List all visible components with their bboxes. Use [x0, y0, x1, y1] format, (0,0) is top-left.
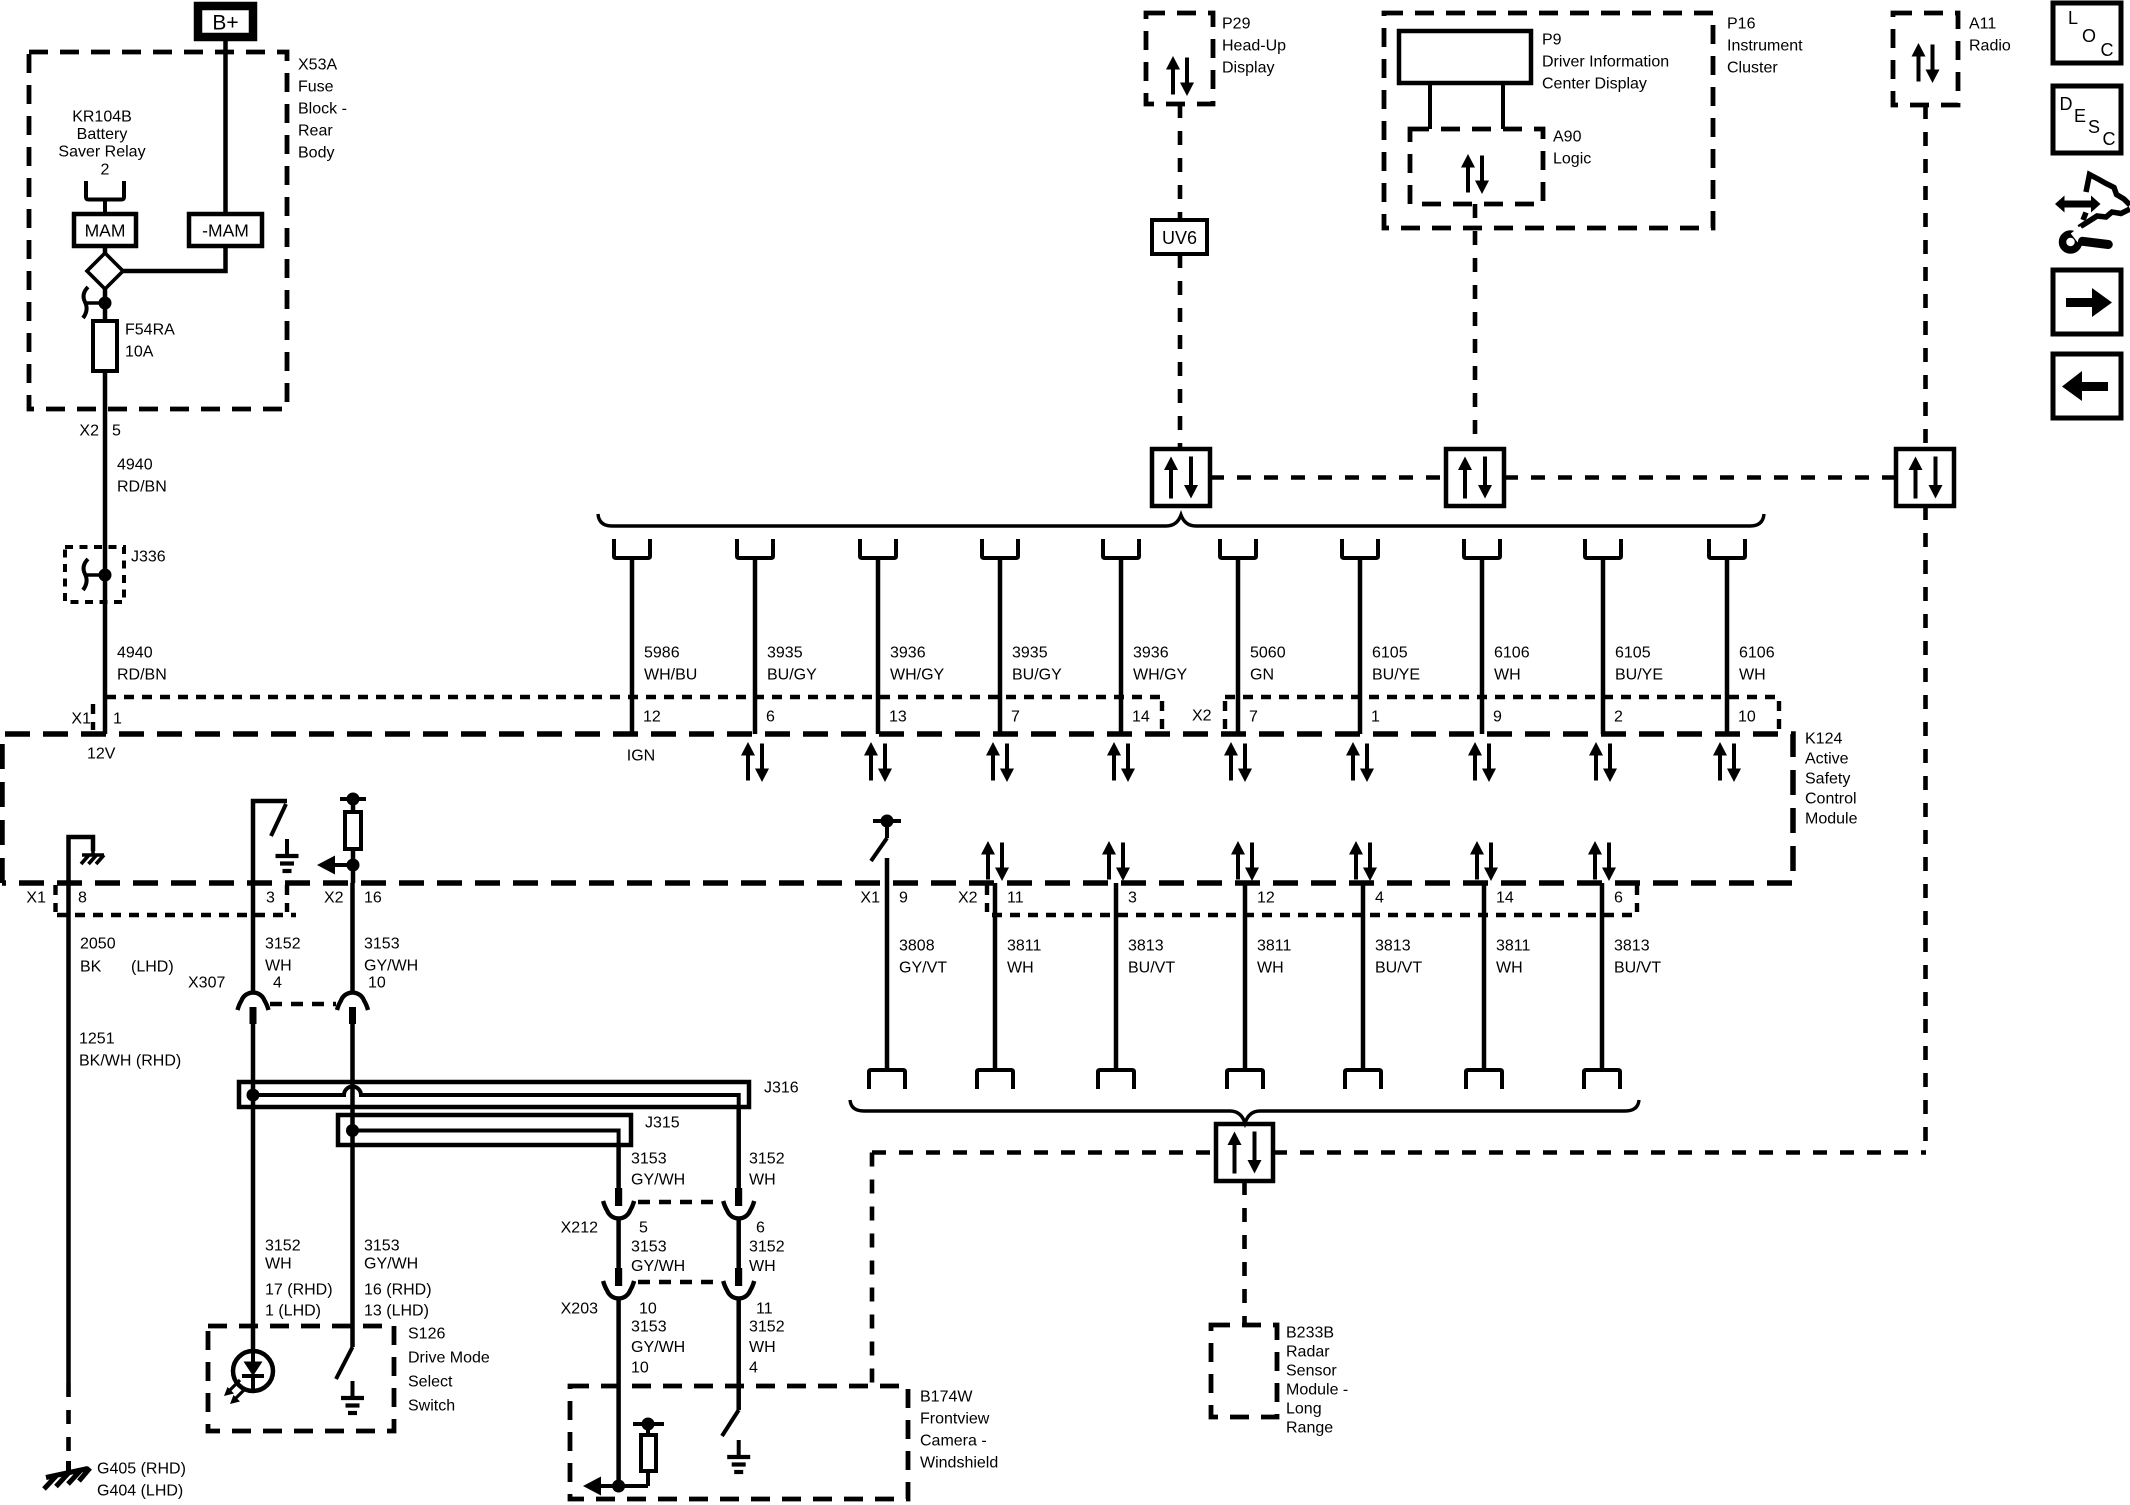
fuse F54RA 10A	[93, 321, 117, 371]
svg-text:3153: 3153	[364, 936, 400, 953]
serial data interface box (radio)	[1896, 449, 1954, 506]
svg-text:14: 14	[1496, 890, 1514, 907]
diamond junction	[87, 253, 123, 289]
svg-text:6106: 6106	[1739, 645, 1775, 662]
svg-text:3153: 3153	[364, 1238, 400, 1255]
svg-text:3152: 3152	[265, 1238, 301, 1255]
svg-text:E: E	[2074, 106, 2086, 126]
svg-text:C: C	[2103, 129, 2116, 149]
serial data arrows	[986, 742, 1014, 782]
svg-text:KR104B: KR104B	[72, 109, 132, 126]
wire A11 to K124 interface	[1923, 105, 1928, 449]
svg-text:WH/GY: WH/GY	[1133, 667, 1188, 684]
svg-text:IGN: IGN	[627, 748, 655, 765]
logic module A90 dashed box	[1410, 129, 1543, 204]
serial data wire radio branch down	[1923, 506, 1928, 1153]
svg-text:6: 6	[1614, 890, 1623, 907]
head-up display P29 dashed box	[1146, 13, 1213, 104]
legend icon arrow right	[2053, 270, 2121, 334]
svg-text:Range: Range	[1286, 1420, 1333, 1437]
svg-text:GY/WH: GY/WH	[631, 1339, 685, 1356]
wire 3808 GY/VT	[885, 858, 890, 1070]
svg-text:3813: 3813	[1614, 938, 1650, 955]
svg-text:X53A: X53A	[298, 57, 337, 74]
option code UV6 box	[1152, 220, 1207, 254]
brace to serial data interfaces	[598, 514, 1764, 526]
svg-text:12: 12	[643, 709, 661, 726]
relay contact MAM	[74, 214, 136, 246]
svg-text:WH: WH	[749, 1339, 776, 1356]
chassis ground symbol (internal)	[81, 851, 104, 864]
svg-text:6: 6	[756, 1220, 765, 1237]
serial data arrows	[1468, 742, 1496, 782]
svg-text:Driver Information: Driver Information	[1542, 54, 1669, 71]
svg-text:P16: P16	[1727, 16, 1756, 33]
svg-text:9: 9	[1493, 709, 1502, 726]
svg-text:A90: A90	[1553, 129, 1582, 146]
svg-text:3811: 3811	[1007, 938, 1042, 955]
svg-text:D: D	[2060, 94, 2073, 114]
svg-text:3153: 3153	[631, 1319, 667, 1336]
earth ground inside K124	[276, 839, 299, 871]
wire P9 to A90 right	[1501, 83, 1505, 129]
wire 3153 GY/WH (X203 to B174W pin 10)	[616, 1300, 621, 1486]
svg-text:Battery: Battery	[77, 126, 128, 143]
svg-text:Windshield: Windshield	[920, 1455, 998, 1472]
svg-text:Body: Body	[298, 145, 334, 162]
wire through fuse to module	[103, 371, 108, 734]
svg-text:3152: 3152	[265, 936, 301, 953]
svg-text:Drive Mode: Drive Mode	[408, 1350, 490, 1367]
LED indicator in S126	[233, 1351, 273, 1391]
svg-text:7: 7	[1249, 709, 1258, 726]
svg-text:11: 11	[1007, 890, 1024, 907]
svg-text:Instrument: Instrument	[1727, 38, 1803, 55]
svg-text:3935: 3935	[1012, 645, 1048, 662]
svg-text:RD/BN: RD/BN	[117, 667, 167, 684]
svg-text:16 (RHD): 16 (RHD)	[364, 1282, 432, 1299]
wire B+ to -MAM	[223, 41, 228, 214]
svg-text:16: 16	[364, 890, 382, 907]
svg-text:3: 3	[266, 890, 275, 907]
svg-text:G404 (LHD): G404 (LHD)	[97, 1483, 183, 1500]
svg-text:8: 8	[78, 890, 87, 907]
serial data arrows	[741, 742, 769, 782]
svg-text:1: 1	[1371, 709, 1380, 726]
svg-text:Radio: Radio	[1969, 38, 2011, 55]
internal resistor in B174W	[633, 1422, 664, 1426]
svg-text:13: 13	[889, 709, 907, 726]
svg-text:WH: WH	[265, 1256, 292, 1273]
svg-text:3936: 3936	[1133, 645, 1169, 662]
svg-text:X1: X1	[26, 890, 46, 907]
ground lead inside K124 at pin 8	[69, 837, 94, 883]
svg-text:2: 2	[1614, 709, 1623, 726]
svg-text:WH: WH	[1257, 960, 1284, 977]
svg-text:1: 1	[113, 711, 122, 728]
svg-text:Radar: Radar	[1286, 1344, 1330, 1361]
svg-text:5060: 5060	[1250, 645, 1286, 662]
junction block J316	[239, 1082, 749, 1107]
svg-text:C: C	[2101, 40, 2114, 60]
relay KR104B pin 2 terminal	[86, 181, 124, 200]
serial data arrows	[1349, 841, 1377, 881]
serial data arrows	[1470, 841, 1498, 881]
wire diamond to fuse	[103, 289, 108, 321]
ground G405 (RHD) G404 (LHD)	[44, 1461, 90, 1489]
svg-text:X203: X203	[561, 1301, 598, 1318]
svg-text:4: 4	[749, 1360, 758, 1377]
svg-text:11: 11	[756, 1301, 773, 1318]
splice J336	[65, 547, 124, 602]
svg-text:12: 12	[1257, 890, 1275, 907]
svg-text:3813: 3813	[1375, 938, 1411, 955]
serial data arrows	[1713, 742, 1741, 782]
svg-text:10: 10	[368, 975, 386, 992]
battery feed terminal B+	[198, 6, 253, 37]
wire UV6 to K124 interface	[1178, 254, 1183, 449]
svg-text:Camera -: Camera -	[920, 1433, 987, 1450]
svg-text:2050: 2050	[80, 936, 116, 953]
svg-text:Active: Active	[1805, 751, 1849, 768]
svg-text:WH: WH	[1496, 960, 1523, 977]
svg-text:WH/BU: WH/BU	[644, 667, 697, 684]
connector X1 top dotted line	[106, 695, 1162, 699]
svg-text:3: 3	[1128, 890, 1137, 907]
svg-text:WH/GY: WH/GY	[890, 667, 945, 684]
svg-text:X212: X212	[561, 1220, 598, 1237]
svg-text:WH: WH	[1494, 667, 1521, 684]
svg-text:BU/GY: BU/GY	[767, 667, 817, 684]
svg-text:WH: WH	[749, 1258, 776, 1275]
module K124 dashed box	[2, 734, 1793, 883]
serial data arrows	[1346, 742, 1374, 782]
serial data wire right branch	[1273, 1150, 1926, 1155]
wire 3936 WH/GY	[860, 539, 896, 558]
drive mode select switch S126 dashed box	[208, 1326, 394, 1431]
svg-text:WH: WH	[749, 1172, 776, 1189]
wire interface2 to interface3	[1504, 475, 1897, 480]
svg-text:X2: X2	[79, 423, 99, 440]
wire 3152 WH (X307 to J316 and S126)	[251, 1024, 256, 1351]
svg-text:B233B: B233B	[1286, 1325, 1334, 1342]
legend icon DESC	[2053, 86, 2121, 153]
radar sensor module B233B dashed box	[1211, 1325, 1277, 1417]
junction block J315	[338, 1115, 631, 1145]
svg-text:B174W: B174W	[920, 1389, 973, 1406]
serial data wire left branch	[872, 1150, 1216, 1155]
instrument cluster P16 dashed box	[1384, 13, 1713, 228]
wire -MAM to diamond	[122, 246, 226, 271]
pull-up resistor inside K124 at pin 16	[340, 797, 366, 801]
serial data arrows	[864, 742, 892, 782]
earth ground in S126	[341, 1381, 364, 1413]
svg-text:3811: 3811	[1257, 938, 1292, 955]
svg-text:UV6: UV6	[1162, 228, 1197, 248]
svg-text:3813: 3813	[1128, 938, 1164, 955]
svg-text:GY/VT: GY/VT	[899, 960, 947, 977]
svg-text:Head-Up: Head-Up	[1222, 38, 1286, 55]
svg-text:BU/VT: BU/VT	[1375, 960, 1422, 977]
svg-text:14: 14	[1132, 709, 1150, 726]
wire P29 to UV6 (serial data)	[1178, 104, 1183, 220]
connector X2 bottom dotted line	[992, 913, 1634, 917]
svg-text:10A: 10A	[125, 344, 154, 361]
legend icon arrow left	[2053, 354, 2121, 418]
svg-text:BU/YE: BU/YE	[1615, 667, 1663, 684]
svg-text:GY/WH: GY/WH	[364, 1256, 418, 1273]
svg-text:3153: 3153	[631, 1151, 667, 1168]
svg-text:6: 6	[766, 709, 775, 726]
svg-text:Cluster: Cluster	[1727, 60, 1778, 77]
svg-text:GY/WH: GY/WH	[364, 958, 418, 975]
svg-text:3153: 3153	[631, 1239, 667, 1256]
connector X2 top dotted line	[1225, 695, 1783, 699]
wire interface to B233B	[1242, 1181, 1247, 1325]
switch in S126	[336, 1347, 353, 1379]
svg-text:(LHD): (LHD)	[131, 959, 174, 976]
brace to radar sensor interface	[850, 1100, 1639, 1123]
wire 6106 WH	[1709, 539, 1745, 558]
serial data arrows	[1231, 841, 1259, 881]
radio A11 dashed box	[1893, 13, 1958, 105]
internal signal arrow at pin 16	[347, 859, 360, 872]
svg-text:Safety: Safety	[1805, 771, 1850, 788]
svg-text:P9: P9	[1542, 32, 1562, 49]
svg-text:Fuse: Fuse	[298, 79, 334, 96]
frontview camera B174W dashed box	[570, 1386, 908, 1499]
svg-text:1 (LHD): 1 (LHD)	[265, 1303, 321, 1320]
serial data interface box (instrument cluster)	[1446, 449, 1504, 506]
wire A90 to K124 interface	[1473, 204, 1478, 449]
svg-text:10: 10	[1738, 709, 1756, 726]
svg-text:6106: 6106	[1494, 645, 1530, 662]
svg-text:13 (LHD): 13 (LHD)	[364, 1303, 429, 1320]
svg-text:Switch: Switch	[408, 1398, 455, 1415]
svg-text:GN: GN	[1250, 667, 1274, 684]
wire 3153 GY/WH (pin 16 to X307)	[350, 883, 355, 991]
svg-text:3935: 3935	[767, 645, 803, 662]
connector X1 bottom dotted line	[57, 913, 296, 917]
svg-text:6105: 6105	[1372, 645, 1408, 662]
svg-text:BK: BK	[80, 959, 102, 976]
svg-text:4940: 4940	[117, 645, 153, 662]
serial data bus wire between interfaces	[1210, 475, 1447, 480]
svg-text:BU/VT: BU/VT	[1128, 960, 1175, 977]
svg-text:17 (RHD): 17 (RHD)	[265, 1282, 333, 1299]
wire 3935 BU/GY	[737, 539, 773, 558]
wire 3935 BU/GY	[982, 539, 1018, 558]
svg-text:P29: P29	[1222, 16, 1251, 33]
switch inside K124 at pin 3	[253, 801, 287, 883]
serial data arrows	[981, 841, 1009, 881]
internal output arrow in B174W	[598, 1484, 648, 1488]
svg-text:1251: 1251	[79, 1031, 115, 1048]
wire 3153 GY/WH (J315 to X212)	[616, 1146, 621, 1188]
svg-text:Select: Select	[408, 1374, 453, 1391]
svg-text:X2: X2	[958, 890, 978, 907]
svg-text:3808: 3808	[899, 938, 935, 955]
wire 5060 GN	[1220, 539, 1256, 558]
svg-text:Module -: Module -	[1286, 1382, 1348, 1399]
svg-text:A11: A11	[1969, 16, 1996, 33]
relay contact -MAM	[189, 214, 262, 246]
legend icon LOC	[2053, 3, 2121, 63]
svg-text:BU/VT: BU/VT	[1614, 960, 1661, 977]
wire P9 to A90 left	[1428, 83, 1432, 129]
svg-text:B+: B+	[212, 12, 238, 35]
internal switch in B174W	[722, 1410, 739, 1436]
svg-text:BU/GY: BU/GY	[1012, 667, 1062, 684]
svg-text:10: 10	[631, 1360, 649, 1377]
svg-text:Module: Module	[1805, 811, 1858, 828]
svg-text:X307: X307	[188, 975, 225, 992]
svg-text:9: 9	[899, 890, 908, 907]
wire 3153 GY/WH (X307 to J315 and S126)	[350, 1024, 355, 1347]
svg-text:Long: Long	[1286, 1401, 1322, 1418]
wire 6105 BU/YE	[1585, 539, 1621, 558]
svg-text:6105: 6105	[1615, 645, 1651, 662]
svg-text:J315: J315	[645, 1115, 680, 1132]
svg-text:4: 4	[273, 975, 282, 992]
svg-text:WH: WH	[1739, 667, 1766, 684]
svg-text:K124: K124	[1805, 731, 1842, 748]
svg-text:3152: 3152	[749, 1319, 785, 1336]
svg-text:S: S	[2088, 117, 2100, 137]
svg-text:X2: X2	[324, 890, 344, 907]
svg-text:BK/WH (RHD): BK/WH (RHD)	[79, 1053, 181, 1070]
svg-text:O: O	[2082, 26, 2096, 46]
wire 3152 WH (X212 to X203)	[736, 1220, 741, 1268]
wire 3153 GY/WH (X212 to X203)	[616, 1220, 621, 1268]
svg-text:GY/WH: GY/WH	[631, 1172, 685, 1189]
serial data interface box (head-up display)	[1152, 449, 1210, 506]
svg-text:X1: X1	[71, 711, 91, 728]
serial data wire down to B174W	[870, 1153, 875, 1388]
serial data arrows	[1102, 841, 1130, 881]
svg-text:Block -: Block -	[298, 101, 347, 118]
svg-text:7: 7	[1011, 709, 1020, 726]
svg-text:GY/WH: GY/WH	[631, 1258, 685, 1275]
svg-text:L: L	[2068, 8, 2078, 28]
serial data arrows	[1589, 742, 1617, 782]
serial data arrows	[1107, 742, 1135, 782]
svg-text:5: 5	[112, 423, 121, 440]
wire 6106 WH	[1464, 539, 1500, 558]
svg-text:10: 10	[639, 1301, 657, 1318]
svg-text:2: 2	[101, 162, 110, 179]
svg-text:X1: X1	[860, 890, 880, 907]
wire MAM to diamond	[103, 246, 108, 254]
earth ground in B174W	[727, 1440, 750, 1472]
wire 5986 WH/BU	[614, 539, 650, 558]
wire 3152 WH (J316 to X212)	[736, 1107, 741, 1188]
svg-text:5: 5	[639, 1220, 648, 1237]
splice clip at fuse feed	[83, 287, 112, 318]
svg-text:F54RA: F54RA	[125, 322, 175, 339]
svg-text:3152: 3152	[749, 1239, 785, 1256]
svg-text:4940: 4940	[117, 457, 153, 474]
svg-text:3152: 3152	[749, 1151, 785, 1168]
svg-text:Center Display: Center Display	[1542, 76, 1647, 93]
display P9 box	[1399, 31, 1531, 83]
svg-text:J316: J316	[764, 1080, 799, 1097]
legend icon vehicle diagnostic (car with arrow and wrench)	[2055, 175, 2130, 251]
svg-text:X2: X2	[1192, 708, 1212, 725]
switch inside K124 at pin 9	[873, 819, 901, 823]
serial data arrows	[1588, 841, 1616, 881]
svg-text:-MAM: -MAM	[202, 221, 249, 241]
fuse block X53A dashed box	[29, 52, 287, 409]
svg-text:3936: 3936	[890, 645, 926, 662]
svg-text:Saver Relay: Saver Relay	[58, 144, 145, 161]
wire 6105 BU/YE	[1342, 539, 1378, 558]
svg-text:MAM: MAM	[85, 221, 126, 241]
svg-text:BU/YE: BU/YE	[1372, 667, 1420, 684]
svg-text:Control: Control	[1805, 791, 1857, 808]
svg-text:Display: Display	[1222, 60, 1274, 77]
serial data arrows	[1224, 742, 1252, 782]
svg-text:4: 4	[1375, 890, 1384, 907]
svg-text:12V: 12V	[87, 746, 116, 763]
svg-text:J336: J336	[131, 549, 166, 566]
svg-text:Frontview: Frontview	[920, 1411, 990, 1428]
serial data interface box (radar sensor)	[1216, 1124, 1273, 1181]
svg-text:S126: S126	[408, 1326, 445, 1343]
svg-text:Sensor: Sensor	[1286, 1363, 1337, 1380]
svg-text:Logic: Logic	[1553, 151, 1591, 168]
svg-text:5986: 5986	[644, 645, 680, 662]
wire 3152 WH (X203 to B174W pin 4)	[736, 1300, 741, 1410]
svg-text:G405 (RHD): G405 (RHD)	[97, 1461, 186, 1478]
svg-text:WH: WH	[1007, 960, 1034, 977]
svg-text:WH: WH	[265, 958, 292, 975]
svg-text:Rear: Rear	[298, 123, 333, 140]
wire 3152 WH (pin 3 to X307)	[251, 883, 256, 991]
wire 2050 BK	[66, 883, 71, 1383]
svg-text:RD/BN: RD/BN	[117, 479, 167, 496]
svg-text:3811: 3811	[1496, 938, 1531, 955]
wire 3936 WH/GY	[1103, 539, 1139, 558]
